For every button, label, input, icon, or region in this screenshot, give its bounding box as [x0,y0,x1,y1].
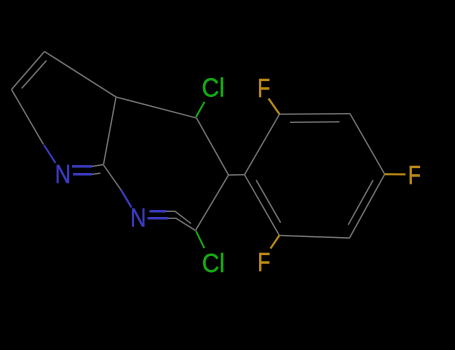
bond N1=C2 inner gray part [166,211,191,223]
bond C4'=C5' inner [348,180,373,225]
svg-text:N: N [55,161,71,190]
bond N8=C8a lower line blue part [73,173,92,176]
bond C6'=C1' inner [256,180,280,223]
bond C1'-C2' [245,114,280,175]
svg-text:F: F [257,74,270,102]
svg-text:F: F [258,248,271,276]
bond C2-C3 [196,175,229,231]
svg-text:Cl: Cl [202,249,225,278]
bond C6=C5 main [12,52,45,90]
bond C2-Cl2 (green stub) [196,231,204,248]
bond C5'-C6' [279,235,349,238]
bond C2'=C3' main [280,113,351,116]
bond C4-Cl4 (green stub) [196,102,205,117]
bond C6=C5 inner [22,61,47,89]
svg-text:Cl: Cl [202,74,225,103]
bond N8=C8a upper line blue part [72,165,92,168]
bond N1=C2 main blue part [148,217,169,220]
bond C3'-C4' [350,114,385,175]
bond C6'=C1' main [245,175,280,236]
bond C8a-N1 blue half [121,190,132,208]
bond C4'=C5' main [350,174,385,238]
bond C2'-F2' (orange stub) [269,99,280,115]
bond C6'-F6' (orange stub) [271,235,280,248]
bond C8a-N1 gray half [104,165,122,190]
bond C4a-C8a [104,97,117,165]
bond N1=C2 inner blue part [150,210,167,213]
bond N8=C8a upper line gray part [92,165,104,167]
bond C7-C6 [12,90,44,145]
bond C3-C1' [229,174,245,176]
bond C4-C4a [116,97,197,118]
svg-text:N: N [130,204,146,233]
bond N1=C2 main gray part [168,218,196,230]
svg-text:F: F [408,161,421,189]
bond C4'-F4' (orange stub) [385,173,406,175]
bond C5-C4a [45,52,117,98]
bond C3-C4 [197,118,229,175]
bond C2'=C3' inner [290,121,340,124]
bond N8=C8a lower line gray part [92,173,101,174]
bond C7-N8 (blue stub) [44,145,56,163]
